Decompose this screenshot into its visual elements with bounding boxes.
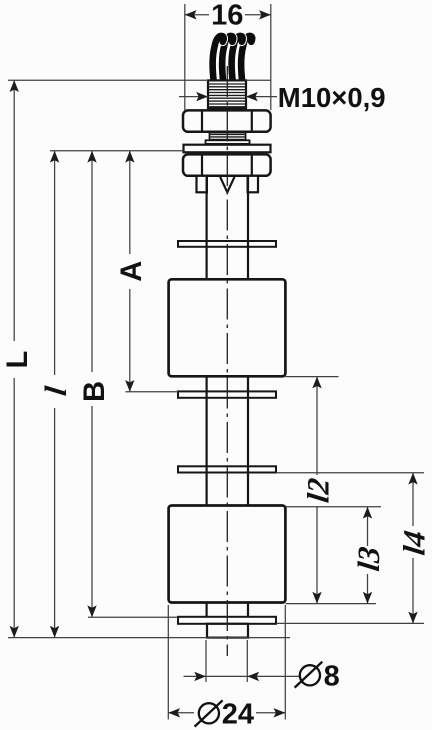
svg-text:24: 24 (222, 699, 254, 730)
svg-text:16: 16 (211, 0, 243, 32)
svg-text:M10×0,9: M10×0,9 (278, 82, 386, 113)
svg-text:A: A (116, 261, 148, 282)
svg-text:l2: l2 (301, 476, 336, 504)
svg-text:8: 8 (324, 661, 340, 693)
svg-text:B: B (79, 381, 111, 402)
svg-text:l3: l3 (351, 545, 386, 573)
svg-text:L: L (2, 351, 34, 369)
svg-text:l4: l4 (397, 529, 432, 557)
